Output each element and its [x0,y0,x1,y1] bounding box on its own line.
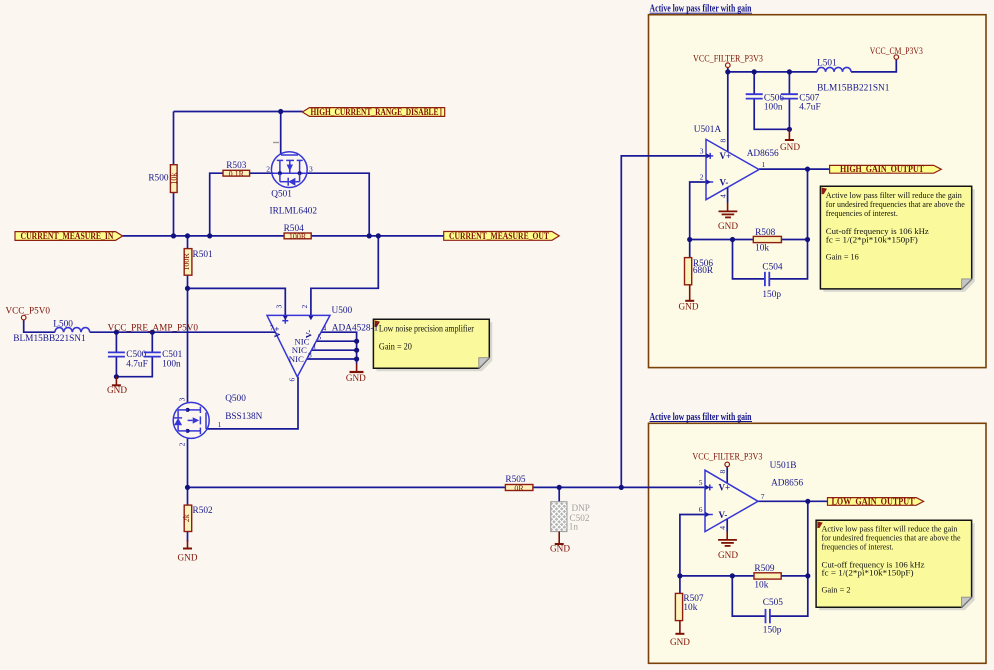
capacitor C504 [762,262,782,299]
Q500 pin numbers [178,397,222,446]
wire tall riser to U501A pin 3 [621,156,706,488]
earth ground below U501A [718,203,738,231]
wire Q501 gate drop [280,112,282,156]
svg-text:VCC_PRE_AMP_P5V0: VCC_PRE_AMP_P5V0 [108,323,199,333]
svg-text:2: 2 [300,305,309,309]
svg-text:C504: C504 [762,262,782,272]
svg-text:DNP: DNP [572,503,590,513]
wire low bus left (to R505) [188,486,506,488]
svg-text:Low noise precision amplifier: Low noise precision amplifier [379,324,474,334]
svg-text:2: 2 [700,172,704,181]
wire R500 top leg [173,112,175,166]
Q500 designator texts [225,394,262,422]
wire Q501 pin 3 to bus [306,173,369,236]
wire C504 loop [733,240,765,279]
svg-text:100n: 100n [764,102,783,112]
svg-text:1n: 1n [569,521,579,531]
svg-text:NIC: NIC [289,354,304,364]
svg-text:1: 1 [762,160,766,169]
resistor R503 [223,161,250,178]
svg-text:680R: 680R [693,266,714,276]
wire U501B output feedback drop [807,501,809,576]
svg-text:GND: GND [346,373,366,383]
svg-text:BLM15BB221SN1: BLM15BB221SN1 [13,334,86,344]
svg-text:0.1R: 0.1R [229,169,245,178]
wire HIGH_CURRENT_RANGE_DISABLE horizontal [174,111,303,113]
U500 designator texts [332,306,379,334]
svg-text:V+: V+ [719,483,731,493]
svg-text:1: 1 [313,342,317,351]
ground below C507 [780,129,800,152]
ground below C502 [550,532,570,554]
svg-text:Gain = 16: Gain = 16 [826,251,860,261]
svg-text:V-: V- [720,177,729,187]
svg-text:V-: V- [719,510,728,520]
U501A pin 4 drop [727,187,729,203]
svg-text:ADA4528-1: ADA4528-1 [332,324,379,334]
ground below C500 [107,377,127,395]
resistor R506 [685,258,714,285]
resistor R501 [182,249,213,276]
resistor R507 [675,593,703,620]
wire U500 NIC pin 5 [316,340,357,342]
transistor Q501 (IRLML6402 P-MOSFET) [271,152,307,188]
svg-text:R500: R500 [148,174,168,184]
svg-text:GND: GND [550,544,570,554]
junction dots left schematic [114,109,624,490]
svg-text:5: 5 [699,478,703,487]
svg-text:1: 1 [218,420,222,429]
svg-text:100R: 100R [289,232,307,241]
wire C500 bottom lead [115,356,117,376]
svg-text:C501: C501 [162,350,182,360]
Q501 gate tick [273,142,279,144]
note sticky: box 1 explanation [820,186,974,292]
wire Q500 gate to U500 pin 6 (output) [206,377,298,429]
svg-text:HIGH_CURRENT_RANGE_DISABLE: HIGH_CURRENT_RANGE_DISABLE [311,107,439,117]
wire C505 loop right [770,576,808,616]
junction dots box1 [687,69,810,242]
wire U501A output feedback drop [807,169,809,239]
svg-text:GND: GND [679,301,699,311]
resistor R500 [148,165,178,193]
ground below R502 [178,540,198,563]
svg-text:BLM15BB221SN1: BLM15BB221SN1 [817,83,890,93]
wire node to U500 pin 3 (non-inverting feed) [188,288,286,315]
junction dots box2 [677,499,810,579]
wire R507 top leg [679,576,681,594]
svg-text:150p: 150p [762,290,781,300]
capacitor C500 [108,350,148,370]
wire U501A output to port [759,168,830,170]
svg-text:10k: 10k [170,173,179,185]
op-amp U500 (ADA4528-1) [267,315,330,376]
wire C501 top lead [151,332,153,352]
ground below R506 [679,285,699,312]
capacitor C507 [781,93,821,112]
U501B pin 4 drop [726,519,728,531]
title text box 2 [650,412,753,423]
earth ground below U501B [718,532,738,560]
wire C507 top lead [788,72,790,94]
wire U501B output to port [758,500,828,502]
wire R501 bottom leg [187,275,189,288]
svg-text:3: 3 [309,165,313,174]
svg-text:GND: GND [780,142,800,152]
svg-text:GND: GND [718,221,738,231]
wire R506 top leg [689,240,691,258]
svg-text:10k: 10k [754,581,768,591]
U501A designator texts [694,125,779,159]
port HIGH_GAIN_OUTPUT [830,164,942,174]
port HIGH_CURRENT_RANGE_DISABLE [302,107,444,117]
wire R503 left lead and drop to bus [210,173,223,236]
svg-text:R509: R509 [754,564,774,574]
svg-text:VCC_FILTER_P3V3: VCC_FILTER_P3V3 [692,452,762,462]
resistor R509 [754,564,781,591]
wire U501A pin 2 loop [690,182,706,240]
svg-text:5: 5 [318,333,322,342]
U500 pin numbers [270,305,327,382]
wire R501 top leg [187,236,189,249]
svg-text:VCC_P5V0: VCC_P5V0 [6,306,51,316]
wire filter rail box1 [728,71,817,73]
svg-text:V+: V+ [272,326,282,337]
svg-text:R501: R501 [193,250,213,260]
U500 NIC pin names [289,336,310,364]
svg-text:150p: 150p [763,625,782,635]
ground below U500 NIC bundle [346,364,366,384]
wire U501B pin 6 loop [680,515,705,576]
svg-text:4: 4 [323,323,327,332]
svg-text:U501B: U501B [770,461,797,471]
wire VCC_FILTER_P3V3 stub box1 [727,68,729,72]
svg-text:6: 6 [699,505,703,514]
svg-text:U500: U500 [332,306,353,316]
power port VCC_P5V0 [6,306,51,320]
wire bus right (R504 to CURRENT_MEASURE_OUT) [311,235,444,237]
svg-text:L501: L501 [817,58,837,68]
capacitor C502 (DNP, grayed) [551,502,590,532]
svg-text:Q501: Q501 [271,189,292,199]
svg-text:Gain = 2: Gain = 2 [822,585,851,595]
wire sense node vertical to Q500 drain [187,288,189,403]
svg-text:100n: 100n [162,359,181,369]
capacitor C505 [763,598,783,635]
svg-text:2k: 2k [182,514,191,522]
blanket region box 2 (Active low pass filter with gain, bottom) [649,423,987,663]
port CURRENT_MEASURE_OUT [444,231,560,241]
op-amp U501B (AD8656) [705,470,758,531]
wire U500 pin 4 and NIC bundle vertical [321,332,357,363]
svg-text:0R: 0R [514,484,524,493]
svg-text:Gain = 20: Gain = 20 [379,342,412,352]
svg-text:R508: R508 [755,228,775,238]
wire C506 bottom to C507 bottom [754,99,789,130]
U501B designator texts [770,461,804,488]
Q501 designator texts [270,189,318,216]
capacitor C506 [746,93,785,112]
svg-text:L500: L500 [53,319,73,329]
wire C500 top lead [115,332,117,352]
resistor R502 [182,505,213,531]
wire C505 loop [732,576,765,616]
svg-text:HIGH_GAIN_OUTPUT: HIGH_GAIN_OUTPUT [840,164,924,174]
svg-text:GND: GND [107,385,127,395]
svg-text:VCC_CM_P3V3: VCC_CM_P3V3 [870,46,923,56]
wire U500 NIC pin 8 [307,358,357,360]
svg-text:10k: 10k [755,244,769,254]
wire bus to U500 pin 2 (inverting feed) [311,236,378,316]
wire VCC rail L500 to U500 pin 7 [90,331,276,333]
wire bus left (CURRENT_MEASURE_IN to R504) [123,235,285,237]
svg-text:8: 8 [308,350,312,359]
wire feedback rail box2 [680,575,754,577]
wire feedback rail box2 right [781,575,808,577]
svg-text:3: 3 [178,397,187,401]
wire R503 right lead to Q501 pin 2 [250,172,274,174]
ground below R507 [670,621,690,647]
svg-text:fc = 1/(2*pi*10k*150pF): fc = 1/(2*pi*10k*150pF) [822,568,914,578]
svg-text:3: 3 [700,146,704,155]
wire C501 bottom to C500 bottom node [116,356,152,376]
inductor L501 [817,58,890,93]
wire R500 bottom leg [173,193,175,236]
svg-text:R502: R502 [193,506,213,516]
wire low bus right (R505 to U501B pin 5) [533,486,705,488]
wire U501A pin 8 drop [727,72,729,152]
svg-text:BSS138N: BSS138N [225,412,262,422]
U501A pin numbers [700,139,766,199]
transistor Q500 (BSS138N N-MOSFET) [173,402,209,438]
svg-text:4.7uF: 4.7uF [126,359,147,369]
svg-text:C505: C505 [763,598,783,608]
svg-text:GND: GND [718,550,738,560]
svg-text:CURRENT_MEASURE_OUT: CURRENT_MEASURE_OUT [449,231,549,241]
svg-text:GND: GND [178,553,198,563]
svg-text:4: 4 [718,526,727,530]
wire C504 loop right [770,240,808,279]
svg-text:Q500: Q500 [225,394,246,404]
svg-text:GND: GND [670,637,690,647]
svg-text:frequencies of interest.: frequencies of interest. [822,542,894,552]
svg-text:100R: 100R [182,253,191,271]
wire U500 NIC pin 1 [311,349,356,351]
resistor R508 [753,228,781,253]
note sticky: Low noise precision amplifier [373,319,492,371]
svg-text:LOW_GAIN_OUTPUT: LOW_GAIN_OUTPUT [832,496,915,506]
wire R502 bottom leg [187,532,189,542]
wire R502 top leg [187,487,189,505]
title text box 1 [650,4,753,15]
resistor R505 [505,475,533,493]
svg-text:V+: V+ [720,151,732,161]
svg-text:AD8656: AD8656 [747,149,779,159]
svg-text:AD8656: AD8656 [771,478,803,488]
wire U501B pin 8 stub [726,467,728,484]
svg-text:8: 8 [719,139,728,143]
wire C502 top lead [558,487,560,501]
Q501 pin numbers [266,165,313,174]
svg-text:VCC_FILTER_P3V3: VCC_FILTER_P3V3 [693,54,763,64]
port LOW_GAIN_OUTPUT [828,496,924,506]
svg-text:10k: 10k [683,603,697,613]
svg-text:6: 6 [288,378,297,382]
blanket region box 1 (Active low pass filter with gain, top) [649,15,987,368]
capacitor C501 [144,350,183,370]
inductor L500 [13,319,89,344]
svg-text:3: 3 [275,305,284,309]
wire feedback rail box1 right [781,239,807,241]
svg-text:U501A: U501A [694,125,722,135]
svg-text:7: 7 [270,323,274,332]
op-amp U501A (AD8656) [706,139,759,199]
svg-text:2: 2 [178,442,187,446]
wire Q500 source to low bus [187,438,189,487]
svg-text:CURRENT_MEASURE_IN: CURRENT_MEASURE_IN [21,231,114,241]
U501B pin numbers [699,470,765,530]
power port VCC_FILTER_P3V3 box2 [692,452,762,467]
power port VCC_FILTER_P3V3 box1 [693,54,763,68]
power port VCC_CM_P3V3 [870,46,923,60]
svg-text:2: 2 [266,165,270,174]
note sticky: box 2 explanation [816,520,975,610]
svg-text:IRLML6402: IRLML6402 [270,206,318,216]
svg-text:frequencies of interest.: frequencies of interest. [826,208,898,218]
port CURRENT_MEASURE_IN [15,231,123,241]
wire VCC_P5V0 port stub [24,320,55,332]
svg-text:7: 7 [761,492,765,501]
wire feedback rail box1 [690,239,754,241]
resistor R504 [284,224,312,241]
svg-text:8: 8 [718,470,727,474]
svg-text:4: 4 [719,194,728,198]
wire C506 leads [753,72,755,94]
svg-text:4.7uF: 4.7uF [799,102,820,112]
svg-text:fc = 1/(2*pi*10k*150pF): fc = 1/(2*pi*10k*150pF) [826,234,918,244]
svg-text:C500: C500 [126,350,146,360]
wire L501 to VCC_CM_P3V3 [851,59,896,72]
wire C507 bottom lead [788,99,790,130]
